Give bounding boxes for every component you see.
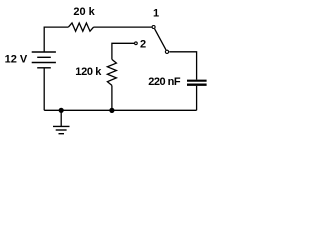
- svg-text:12 V: 12 V: [5, 54, 28, 66]
- junction dot (R2 to rail): [109, 108, 114, 113]
- switch S1 throw terminal 2: [135, 42, 138, 45]
- switch S1 arm (pole to throw 1): [155, 29, 166, 50]
- junction dot (ground tap): [59, 108, 64, 113]
- svg-text:20 k: 20 k: [73, 6, 95, 18]
- capacitor C1 220 nF: [187, 81, 207, 85]
- wire: switch pole right and down to C1: [169, 52, 196, 80]
- ground symbol: [53, 110, 70, 133]
- wire: R1 to switch throw 1: [94, 26, 152, 28]
- wire: throw 2 left and down to R2: [112, 43, 134, 59]
- wire: C1 bottom to ground rail: [196, 86, 198, 111]
- switch S1 throw terminal 1: [152, 26, 155, 29]
- svg-text:220 nF: 220 nF: [148, 76, 181, 88]
- wire: battery bottom to ground rail: [43, 68, 45, 111]
- switch S1 pole terminal: [165, 50, 168, 53]
- wire: R2 bottom to ground rail: [111, 85, 113, 110]
- svg-text:1: 1: [153, 8, 159, 20]
- svg-text:120 k: 120 k: [75, 66, 102, 78]
- wire: bottom ground rail: [44, 109, 196, 111]
- resistor R2 120 k (vertical zigzag): [107, 59, 116, 85]
- battery V1 (12 V source): [32, 52, 56, 68]
- resistor R1 20 k (horizontal zigzag): [68, 23, 93, 31]
- wire: battery top up and right to R1: [44, 27, 68, 52]
- svg-text:2: 2: [140, 38, 146, 50]
